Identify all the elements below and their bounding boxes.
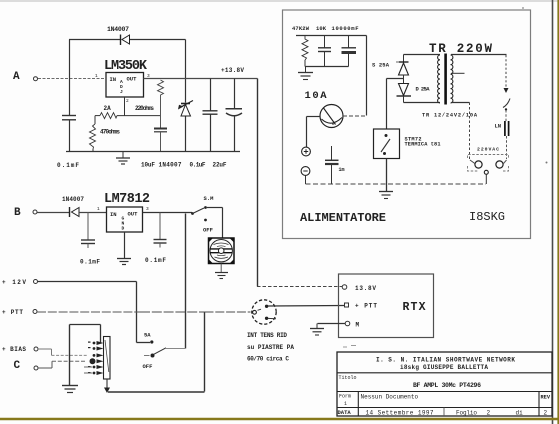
svg-text:2: 2 (544, 409, 548, 416)
svg-text:10K: 10K (316, 25, 327, 32)
svg-text:LM350K: LM350K (104, 59, 148, 74)
svg-text:10000mF: 10000mF (332, 25, 359, 32)
svg-text:i8skg GIUSEPPE BALLETTA: i8skg GIUSEPPE BALLETTA (400, 364, 488, 371)
svg-text:DATA: DATA (338, 409, 352, 416)
svg-text:ALIMENTATORE: ALIMENTATORE (300, 211, 386, 225)
svg-text:10uF: 10uF (141, 162, 155, 169)
svg-text:0.1uF: 0.1uF (190, 162, 206, 169)
svg-text:A: A (13, 71, 20, 83)
svg-text:TERMICA t81: TERMICA t81 (405, 142, 441, 148)
svg-text:22uF: 22uF (213, 162, 227, 169)
svg-text:Foglio: Foglio (456, 409, 477, 416)
svg-text:1N4007: 1N4007 (62, 196, 84, 203)
svg-text:RTX: RTX (403, 301, 426, 314)
svg-text:2A: 2A (104, 105, 112, 112)
svg-text:M: M (356, 322, 360, 329)
svg-text:60/70 circa C: 60/70 circa C (247, 356, 289, 363)
svg-text:S 25A: S 25A (372, 62, 390, 69)
svg-text:S.M: S.M (204, 195, 215, 202)
svg-text:1N4007: 1N4007 (159, 162, 182, 169)
svg-text:B: B (14, 207, 21, 219)
svg-text:IN: IN (110, 211, 117, 218)
svg-text:2: 2 (126, 98, 129, 104)
svg-text:Form: Form (339, 394, 351, 400)
svg-text:+ PTT: + PTT (2, 309, 23, 316)
svg-text:3: 3 (146, 206, 149, 212)
svg-text:1: 1 (97, 206, 100, 212)
svg-text:+ 12V: + 12V (2, 279, 26, 286)
svg-text:10A: 10A (305, 90, 328, 102)
svg-text:14 Settembre 1997: 14 Settembre 1997 (366, 409, 434, 416)
svg-text:su PIASTRE PA: su PIASTRE PA (247, 344, 294, 351)
svg-text:BF AMPL 30Mc PT4296: BF AMPL 30Mc PT4296 (413, 382, 481, 389)
svg-text:INT TENS RID: INT TENS RID (247, 332, 287, 339)
svg-text:+ PTT: + PTT (355, 303, 377, 310)
svg-text:13.8V: 13.8V (355, 285, 376, 292)
svg-text:0.1mF: 0.1mF (57, 162, 79, 169)
svg-text:220VAC: 220VAC (477, 147, 499, 153)
svg-text:LN: LN (495, 123, 502, 130)
svg-text:0.1mF: 0.1mF (80, 259, 100, 266)
svg-text:LM7812: LM7812 (104, 192, 150, 207)
svg-text:5A: 5A (144, 332, 151, 339)
svg-text:IN: IN (110, 76, 117, 83)
svg-text:OUT: OUT (127, 76, 138, 83)
svg-text:220ohms: 220ohms (135, 105, 154, 112)
svg-text:Titolo: Titolo (339, 375, 357, 381)
svg-text:3: 3 (147, 73, 150, 79)
svg-text:OFF: OFF (143, 363, 153, 370)
svg-text:OUT: OUT (128, 211, 139, 218)
svg-text:D 25A: D 25A (416, 86, 431, 93)
svg-text:I. S. N. ITALIAN SHORTWAVE: I. S. N. ITALIAN SHORTWAVE NETWORK (376, 357, 515, 364)
svg-text:di: di (516, 409, 524, 416)
svg-text:1N4007: 1N4007 (107, 26, 129, 33)
svg-text:47K2W: 47K2W (292, 25, 310, 32)
svg-text:C: C (14, 360, 21, 372)
svg-text:1: 1 (95, 73, 98, 79)
svg-text:1m: 1m (339, 167, 345, 173)
svg-text:J: J (120, 89, 123, 95)
svg-text:Nessun Documento: Nessun Documento (361, 394, 419, 401)
svg-text:OFF: OFF (203, 227, 213, 234)
svg-text:+13.8V: +13.8V (221, 67, 244, 74)
svg-text:I8SKG: I8SKG (469, 210, 505, 224)
svg-text:D: D (122, 226, 125, 232)
svg-text:+ BIAS: + BIAS (2, 346, 26, 353)
svg-text:TR 12/24V2/10A: TR 12/24V2/10A (422, 113, 478, 119)
svg-text:1: 1 (344, 401, 347, 407)
svg-text:0.1mF: 0.1mF (145, 257, 166, 264)
svg-text:2: 2 (487, 409, 491, 416)
svg-text:470ohms: 470ohms (100, 129, 120, 136)
svg-text:REV: REV (541, 395, 551, 401)
